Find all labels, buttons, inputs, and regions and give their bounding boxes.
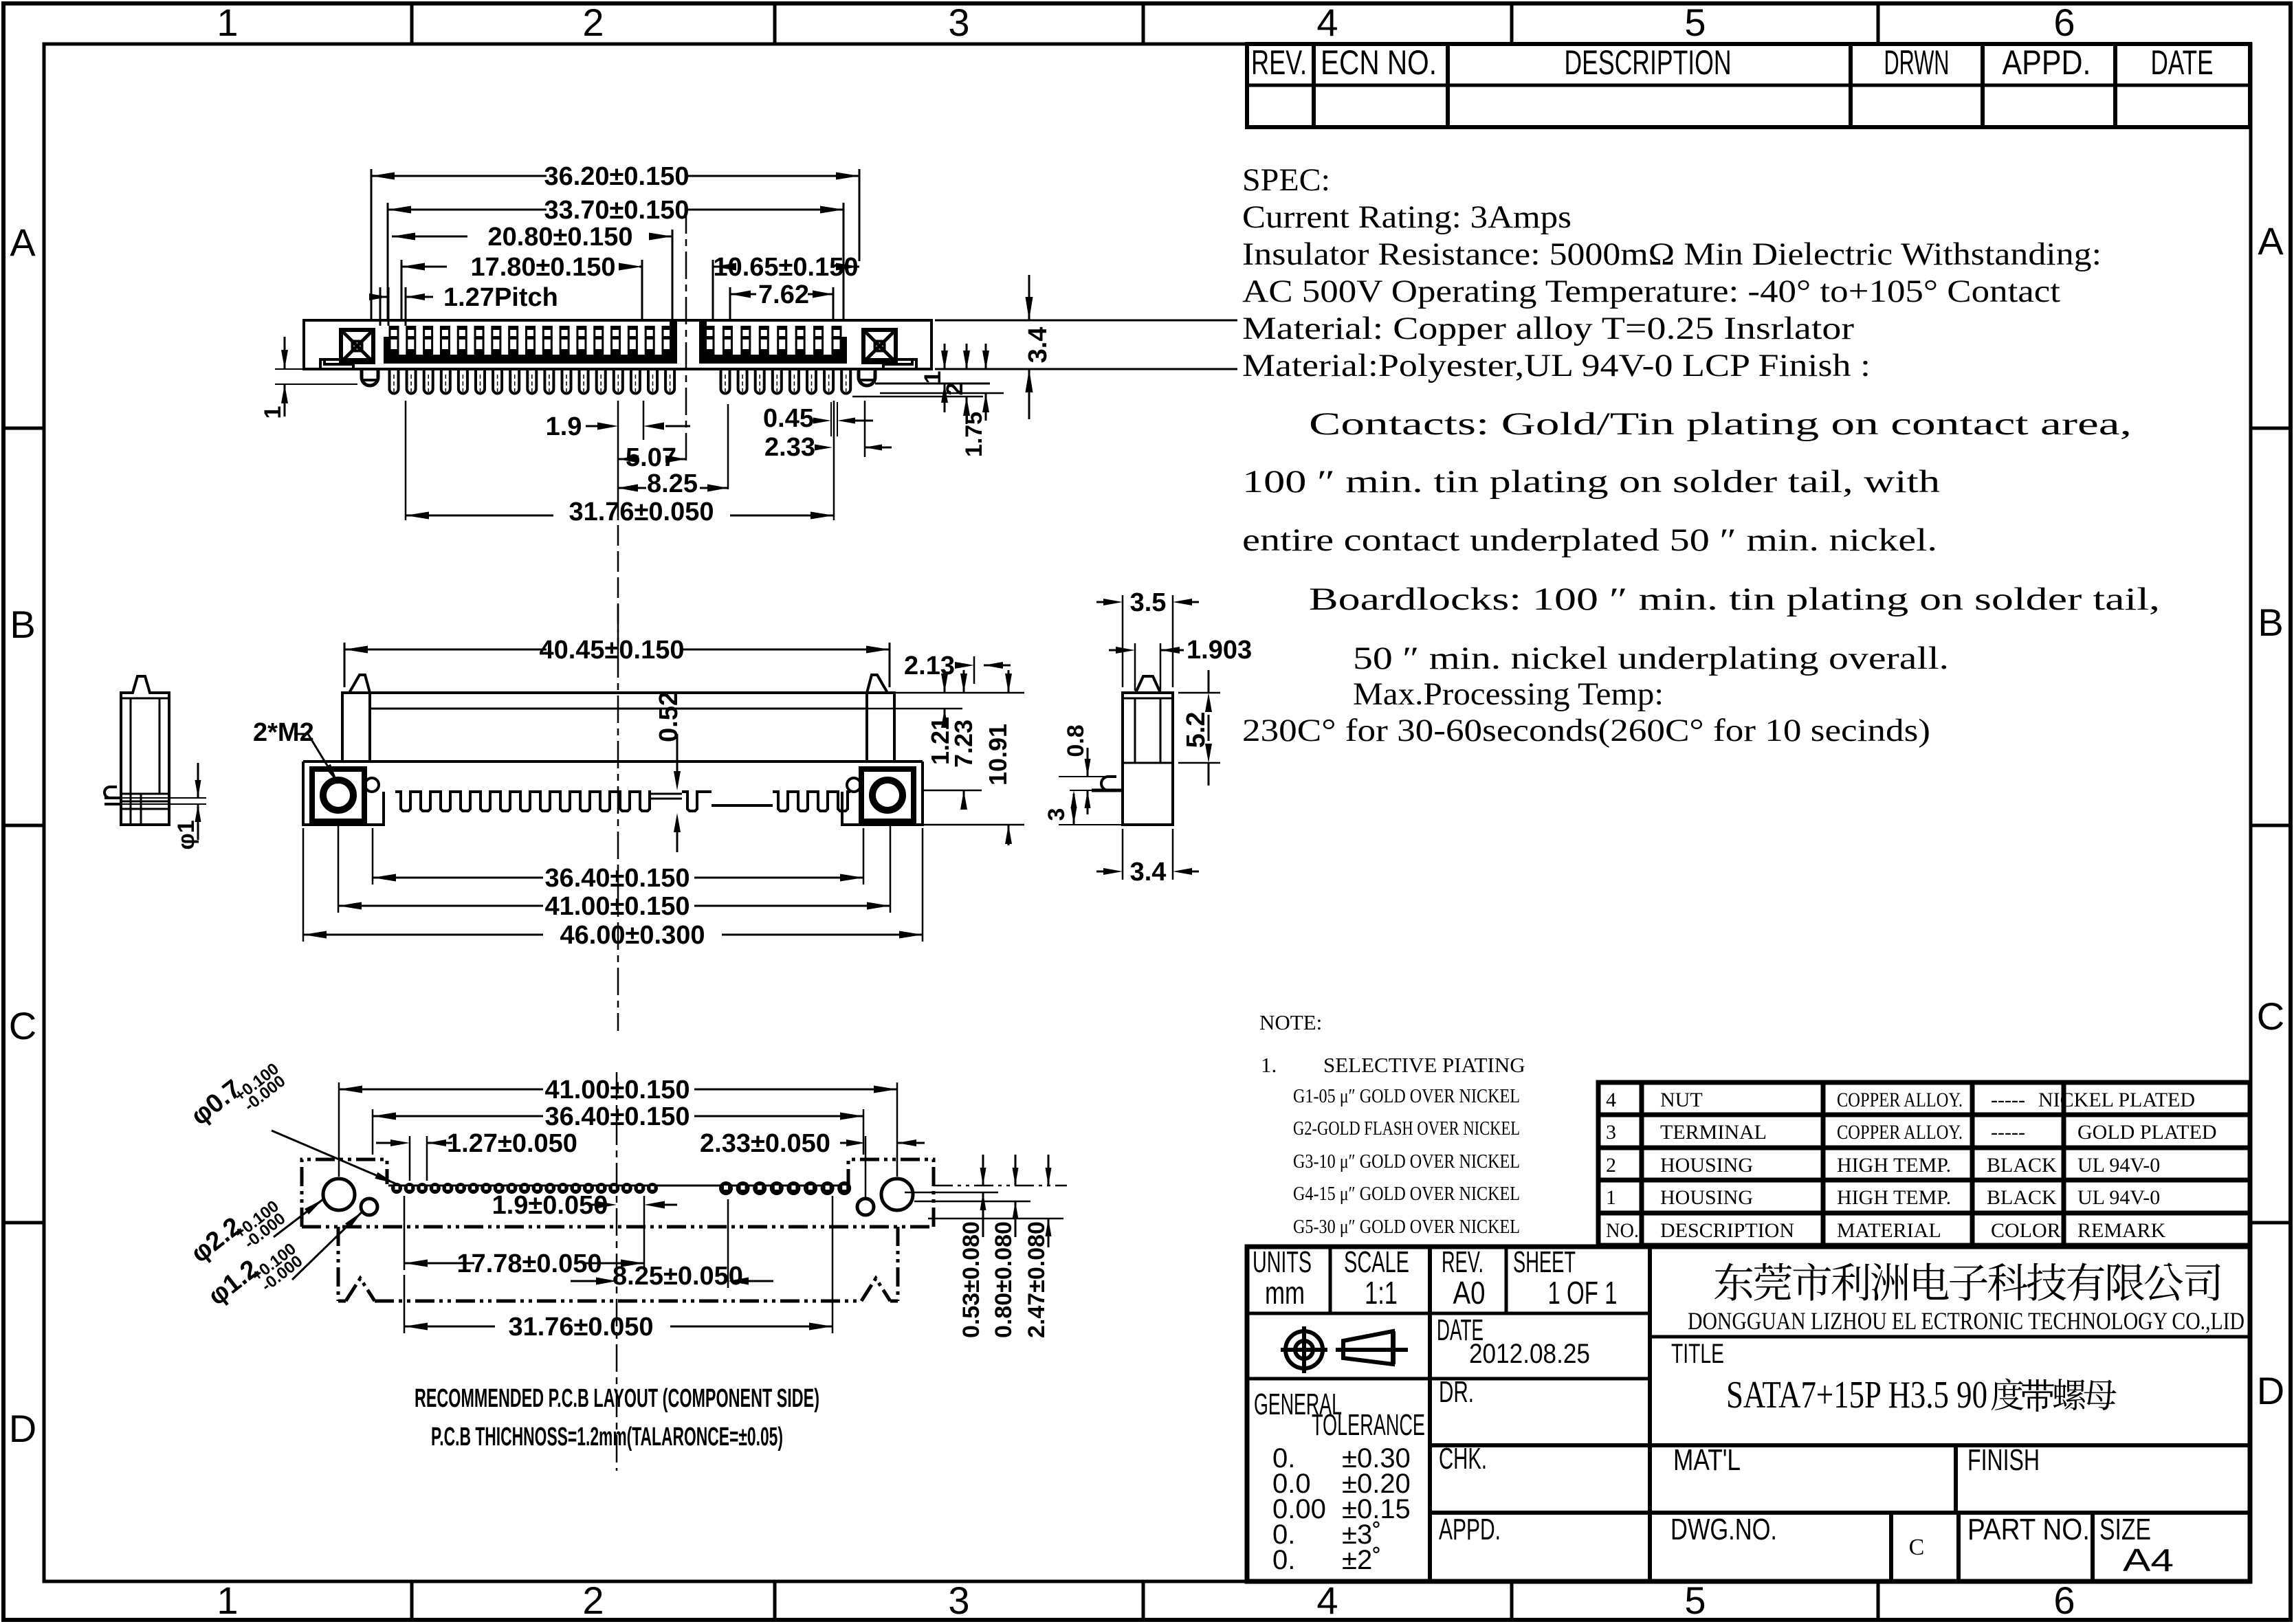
svg-text:NUT: NUT <box>1660 1089 1703 1111</box>
svg-text:7.23: 7.23 <box>949 720 978 768</box>
dim 36.20±0.150 <box>371 175 547 177</box>
dim 20.80±0.150 <box>392 236 467 238</box>
dim 1.27Pitch <box>380 296 388 298</box>
svg-text:HIGH TEMP.: HIGH TEMP. <box>1837 1154 1951 1177</box>
top view left mounting peg <box>362 369 378 386</box>
svg-text:0.80±0.080: 0.80±0.080 <box>991 1221 1017 1338</box>
svg-text:36.40±0.150: 36.40±0.150 <box>544 864 690 893</box>
svg-text:G5-30 μ″ GOLD OVER NICKEL: G5-30 μ″ GOLD OVER NICKEL <box>1293 1216 1520 1238</box>
svg-text:1: 1 <box>920 371 946 384</box>
svg-text:36.40±0.150: 36.40±0.150 <box>544 1102 690 1131</box>
svg-text:COPPER ALLOY.: COPPER ALLOY. <box>1837 1121 1963 1144</box>
svg-text:G1-05 μ″ GOLD OVER NICKEL: G1-05 μ″ GOLD OVER NICKEL <box>1293 1085 1520 1107</box>
pcb dim 0.53±0.080 <box>982 1155 984 1186</box>
svg-text:4: 4 <box>1316 1 1338 44</box>
svg-text:A4: A4 <box>2123 1542 2174 1578</box>
front view left small hole <box>365 778 379 792</box>
svg-text:8.25: 8.25 <box>647 469 698 498</box>
pcb dim 2.47±0.080 <box>1048 1155 1050 1186</box>
dim 17.80±0.150 <box>401 266 447 268</box>
svg-text:P.C.B THICHNOSS=1.2mm(TALARONC: P.C.B THICHNOSS=1.2mm(TALARONCE=±0.05) <box>431 1423 783 1451</box>
dim φ1 <box>121 797 206 799</box>
svg-text:DR.: DR. <box>1439 1375 1474 1409</box>
svg-text:Current Rating: 3Amps: Current Rating: 3Amps <box>1242 199 1571 235</box>
svg-text:46.00±0.300: 46.00±0.300 <box>560 921 705 950</box>
svg-text:1.903: 1.903 <box>1187 636 1252 665</box>
pcb layout big hole φ2.2 left <box>323 1179 355 1210</box>
revision table top right <box>1247 44 2250 127</box>
dim 5.2 <box>1178 692 1220 694</box>
svg-text:10.91: 10.91 <box>984 724 1012 786</box>
svg-text:4: 4 <box>1316 1579 1338 1622</box>
dim 41.00±0.150 <box>338 905 543 907</box>
svg-text:230C° for 30-60seconds(260C° f: 230C° for 30-60seconds(260C° for 10 seci… <box>1242 713 1930 748</box>
pcb dim 31.76±0.050 <box>404 1326 495 1328</box>
svg-text:C: C <box>9 1004 36 1047</box>
dim 2 <box>966 344 968 370</box>
pcb right ext lines <box>934 1185 1067 1187</box>
svg-text:RECOMMENDED P.C.B LAYOUT (COMP: RECOMMENDED P.C.B LAYOUT (COMPONENT SIDE… <box>415 1384 819 1413</box>
dim 10.91 <box>1008 670 1010 693</box>
svg-text:1: 1 <box>1606 1186 1616 1209</box>
svg-text:TERMINAL: TERMINAL <box>1660 1121 1767 1144</box>
svg-text:33.70±0.150: 33.70±0.150 <box>544 196 689 225</box>
svg-text:APPD.: APPD. <box>2003 43 2091 82</box>
svg-text:1: 1 <box>217 1 238 44</box>
svg-text:41.00±0.150: 41.00±0.150 <box>544 1076 690 1104</box>
svg-text:Material:Polyester,UL 94V-0 LC: Material:Polyester,UL 94V-0 LCP Finish : <box>1242 348 1871 383</box>
svg-text:DRWN: DRWN <box>1884 43 1950 82</box>
svg-text:1.27Pitch: 1.27Pitch <box>443 283 558 312</box>
parts list table <box>1598 1082 2250 1245</box>
svg-text:Insulator Resistance: 5000mΩ: Insulator Resistance: 5000mΩ Min Dielect… <box>1242 236 2102 272</box>
top view left shelf step <box>320 359 369 369</box>
dim 0.8 <box>1059 776 1108 777</box>
top view solder pins row <box>390 370 399 394</box>
svg-text:HIGH TEMP.: HIGH TEMP. <box>1837 1186 1951 1209</box>
svg-text:COPPER ALLOY.: COPPER ALLOY. <box>1837 1089 1963 1111</box>
svg-text:3.5: 3.5 <box>1130 588 1167 617</box>
dim 40.45±0.150 <box>344 649 547 651</box>
svg-text:BLACK: BLACK <box>1987 1186 2057 1209</box>
pcb layout small hole φ1.2 right <box>857 1199 874 1215</box>
svg-text:Contacts: Gold/Tin plating on: Contacts: Gold/Tin plating on contact ar… <box>1309 406 2132 442</box>
svg-text:3.4: 3.4 <box>1130 858 1167 887</box>
svg-text:NO.: NO. <box>1606 1219 1639 1242</box>
svg-text:UNITS: UNITS <box>1253 1245 1312 1279</box>
dim 1 (right peg) <box>944 344 946 370</box>
company name Chinese <box>1714 1263 2220 1301</box>
front view main body <box>303 760 923 763</box>
left side view body <box>121 676 169 825</box>
svg-text:5.2: 5.2 <box>1182 712 1211 748</box>
svg-text:AC 500V Operating Temperature: AC 500V Operating Temperature: -40° to+1… <box>1242 274 2060 309</box>
svg-text:-----: ----- <box>1991 1121 2025 1144</box>
svg-text:10.65±0.150: 10.65±0.150 <box>713 253 858 282</box>
top view datum centerline <box>685 206 687 464</box>
svg-text:0.53±0.080: 0.53±0.080 <box>958 1221 984 1338</box>
svg-text:G3-10 μ″ GOLD OVER NICKEL: G3-10 μ″ GOLD OVER NICKEL <box>1293 1150 1520 1172</box>
dim 36.40±0.150 <box>373 877 543 879</box>
svg-text:REMARK: REMARK <box>2077 1219 2166 1242</box>
svg-text:1.27±0.050: 1.27±0.050 <box>447 1129 577 1158</box>
top view right boardlock bowtie <box>863 330 896 362</box>
dim 33.70±0.150 <box>388 209 547 211</box>
svg-text:D: D <box>9 1407 36 1450</box>
svg-text:A: A <box>10 221 36 264</box>
svg-text:ECN NO.: ECN NO. <box>1321 43 1437 82</box>
svg-text:6: 6 <box>2053 1 2075 44</box>
svg-text:C: C <box>2257 994 2284 1038</box>
svg-text:G2-GOLD FLASH OVER NICKEL: G2-GOLD FLASH OVER NICKEL <box>1293 1117 1520 1139</box>
svg-text:1.75: 1.75 <box>961 412 987 457</box>
svg-text:DATE: DATE <box>2151 43 2214 82</box>
pcb layout right pad outline (dash-dot) <box>848 1159 934 1227</box>
svg-text:1 OF 1: 1 OF 1 <box>1548 1275 1618 1311</box>
svg-text:Material: Copper alloy T=0.25: Material: Copper alloy T=0.25 Insrlator <box>1242 311 1854 346</box>
first-angle projection symbol <box>1281 1326 1327 1373</box>
svg-text:50 ″ min. nickel underplating: 50 ″ min. nickel underplating overall. <box>1353 641 1949 676</box>
right side view dim 3.5 <box>1096 601 1114 603</box>
dim 3 <box>1059 824 1123 825</box>
dim 10.65±0.150 <box>713 266 729 268</box>
zone tick marks <box>410 3 414 44</box>
dim 7.62 <box>730 291 751 298</box>
svg-text:SIZE: SIZE <box>2099 1513 2151 1546</box>
front view left nut <box>312 769 364 821</box>
pcb layout contact row line <box>388 1185 849 1187</box>
svg-text:36.20±0.150: 36.20±0.150 <box>544 162 689 191</box>
top view right shelf step <box>868 359 916 369</box>
svg-text:REV.: REV. <box>1442 1245 1484 1279</box>
svg-text:B: B <box>2258 601 2283 644</box>
right side view body <box>1123 693 1173 825</box>
front view right small hole <box>847 778 861 792</box>
top view 7-pin contact comb <box>699 355 847 364</box>
svg-text:SPEC:: SPEC: <box>1242 162 1330 198</box>
svg-text:NICKEL PLATED: NICKEL PLATED <box>2038 1089 2195 1111</box>
svg-text:FINISH: FINISH <box>1967 1443 2040 1477</box>
dim 7.23 <box>963 670 965 693</box>
svg-text:SCALE: SCALE <box>1344 1245 1409 1279</box>
svg-text:0.52: 0.52 <box>654 691 683 742</box>
svg-text:PART NO.: PART NO. <box>1967 1513 2090 1546</box>
pcb layout left pad outline (dash-dot) <box>302 1159 387 1227</box>
svg-text:3: 3 <box>948 1 969 44</box>
top view right mounting peg <box>859 369 875 386</box>
pcb layout big hole φ2.2 right <box>881 1179 913 1210</box>
svg-text:SELECTIVE PIATING: SELECTIVE PIATING <box>1323 1053 1525 1077</box>
svg-text:2.47±0.080: 2.47±0.080 <box>1024 1221 1050 1338</box>
svg-text:8.25±0.050: 8.25±0.050 <box>613 1262 743 1291</box>
svg-text:Max.Processing Temp:: Max.Processing Temp: <box>1353 676 1664 712</box>
pcb dim 41.00±0.150 <box>339 1089 543 1091</box>
svg-text:4: 4 <box>1606 1089 1616 1111</box>
svg-text:SATA7+15P H3.5 90: SATA7+15P H3.5 90 <box>1726 1374 1987 1416</box>
dim 3.4 bottom <box>1122 829 1124 880</box>
top view left dim 1 (peg) <box>275 368 304 370</box>
top view left boardlock bowtie <box>341 330 373 362</box>
svg-text:Boardlocks: 100 ″ min. tin pla: Boardlocks: 100 ″ min. tin plating on so… <box>1309 581 2160 617</box>
pcb layout small hole φ1.2 left <box>361 1199 377 1215</box>
svg-text:DESCRIPTION: DESCRIPTION <box>1565 43 1732 82</box>
svg-text:DESCRIPTION: DESCRIPTION <box>1660 1219 1794 1242</box>
svg-text:CHK.: CHK. <box>1439 1442 1487 1476</box>
front view right dim ext lines <box>894 692 1024 694</box>
svg-text:1.: 1. <box>1261 1053 1277 1077</box>
svg-text:A0: A0 <box>1453 1275 1486 1311</box>
svg-text:SHEET: SHEET <box>1513 1245 1576 1279</box>
svg-text:TOLERANCE: TOLERANCE <box>1312 1408 1425 1442</box>
pcb layout lower outline (dash-dot) <box>337 1227 340 1301</box>
svg-text:3: 3 <box>1606 1121 1616 1144</box>
svg-text:7.62: 7.62 <box>758 280 809 309</box>
svg-text:5: 5 <box>1684 1 1706 44</box>
front view sawtooth contact row <box>395 792 651 811</box>
svg-text:entire contact underplated 50: entire contact underplated 50 ″ min. nic… <box>1242 522 1937 558</box>
dim 1.21 <box>944 670 946 693</box>
svg-text:40.45±0.150: 40.45±0.150 <box>539 636 684 665</box>
dim 46.00±0.300 <box>303 934 543 936</box>
svg-text:MAT'L: MAT'L <box>1673 1443 1741 1477</box>
front view centerline <box>617 605 619 1031</box>
svg-text:1: 1 <box>217 1579 238 1622</box>
svg-text:B: B <box>10 603 35 646</box>
svg-text:17.80±0.150: 17.80±0.150 <box>470 253 615 282</box>
pcb dim 17.78±0.050 <box>404 1263 474 1265</box>
svg-text:APPD.: APPD. <box>1439 1513 1501 1546</box>
svg-text:3: 3 <box>1044 808 1070 821</box>
svg-text:2*M2: 2*M2 <box>253 718 314 747</box>
svg-text:41.00±0.150: 41.00±0.150 <box>544 892 690 921</box>
top view 15-pin contact comb <box>384 355 677 364</box>
title block <box>1247 1247 2250 1581</box>
svg-text:UL 94V-0: UL 94V-0 <box>2077 1154 2160 1177</box>
svg-text:0.: 0. <box>1272 1545 1295 1575</box>
cone projection symbol <box>1336 1331 1408 1364</box>
svg-text:NOTE:: NOTE: <box>1259 1010 1322 1034</box>
svg-text:G4-15 μ″ GOLD OVER NICKEL: G4-15 μ″ GOLD OVER NICKEL <box>1293 1183 1520 1205</box>
svg-text:BLACK: BLACK <box>1987 1154 2057 1177</box>
svg-text:2012.08.25: 2012.08.25 <box>1469 1339 1590 1369</box>
svg-text:2: 2 <box>1606 1154 1616 1177</box>
svg-text:0.45: 0.45 <box>763 404 814 433</box>
svg-text:HOUSING: HOUSING <box>1660 1154 1753 1177</box>
right side view solder pin <box>1092 789 1123 792</box>
pcb dim 1.27±0.050 <box>376 1142 400 1144</box>
svg-text:2: 2 <box>582 1 604 44</box>
svg-text:HOUSING: HOUSING <box>1660 1186 1753 1209</box>
svg-text:MATERIAL: MATERIAL <box>1837 1219 1941 1242</box>
top view: connector housing outline <box>304 320 931 369</box>
svg-text:0.8: 0.8 <box>1063 724 1089 757</box>
svg-text:3.4: 3.4 <box>1024 327 1052 364</box>
svg-text:1.9: 1.9 <box>546 412 582 441</box>
svg-text:6: 6 <box>2053 1579 2075 1622</box>
pcb dim 36.40±0.150 <box>373 1115 543 1117</box>
svg-text:-----: ----- <box>1991 1089 2025 1111</box>
svg-text:20.80±0.150: 20.80±0.150 <box>487 223 632 252</box>
svg-text:mm: mm <box>1265 1275 1305 1311</box>
svg-text:2: 2 <box>582 1579 604 1622</box>
right side view dim 1.903 <box>1109 649 1126 652</box>
dim 3.4 (housing height) <box>1028 275 1030 320</box>
svg-text:DWG.NO.: DWG.NO. <box>1670 1513 1777 1546</box>
svg-text:1:1: 1:1 <box>1365 1275 1398 1311</box>
front view top mating bar <box>342 691 894 694</box>
front view left latch post <box>342 675 370 761</box>
svg-text:REV.: REV. <box>1251 43 1307 82</box>
svg-text:±2˚: ±2˚ <box>1342 1545 1382 1575</box>
svg-text:GOLD PLATED: GOLD PLATED <box>2077 1121 2217 1144</box>
svg-text:A: A <box>2258 219 2284 263</box>
front view right latch post <box>867 675 894 761</box>
svg-text:C: C <box>1909 1535 1925 1560</box>
svg-text:3: 3 <box>948 1579 969 1622</box>
comb inner-end key slabs <box>670 322 677 356</box>
svg-text:1: 1 <box>260 406 286 419</box>
svg-text:TITLE: TITLE <box>1671 1339 1724 1369</box>
svg-text:COLOR: COLOR <box>1991 1219 2061 1242</box>
left side view solder pin <box>104 797 121 799</box>
svg-text:2.33: 2.33 <box>764 433 815 462</box>
front view right nut <box>861 769 914 821</box>
svg-text:100 ″ min. tin plating on sold: 100 ″ min. tin plating on solder tail, w… <box>1242 464 1940 500</box>
pcb dim 0.80±0.080 <box>1015 1155 1017 1186</box>
svg-text:31.76±0.050: 31.76±0.050 <box>569 498 714 526</box>
svg-text:φ1: φ1 <box>173 820 199 849</box>
svg-text:5: 5 <box>1684 1579 1706 1622</box>
svg-text:17.78±0.050: 17.78±0.050 <box>456 1249 602 1278</box>
svg-text:2.33±0.050: 2.33±0.050 <box>700 1129 830 1158</box>
pcb layout centerline <box>616 1072 618 1471</box>
pcb layout band bottom (dash-dot) <box>302 1225 934 1229</box>
ext verticals below top view <box>617 401 619 520</box>
svg-text:D: D <box>2257 1369 2284 1412</box>
dim 31.76±0.050 <box>406 515 553 517</box>
dim 1.75 <box>985 344 987 370</box>
svg-text:UL 94V-0: UL 94V-0 <box>2077 1186 2160 1209</box>
top view right ext lines <box>935 320 1237 322</box>
svg-text:31.76±0.050: 31.76±0.050 <box>508 1313 653 1342</box>
svg-text:DONGGUAN LIZHOU EL ECTRONIC TE: DONGGUAN LIZHOU EL ECTRONIC TECHNOLOGY C… <box>1688 1307 2245 1335</box>
pcb layout contact holes φ0.7 <box>391 1183 402 1194</box>
